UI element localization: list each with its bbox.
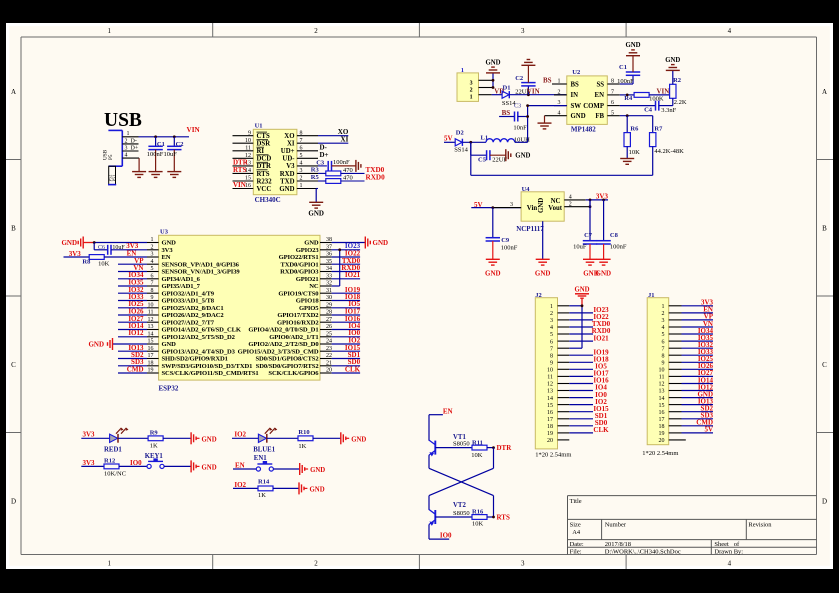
- svg-text:4: 4: [151, 259, 154, 265]
- capacitor C2: [164, 137, 184, 172]
- U3 left pins 1-19: [147, 237, 159, 374]
- svg-text:B: B: [822, 225, 827, 233]
- P1 designator: [461, 67, 464, 74]
- svg-text:4: 4: [558, 110, 561, 116]
- svg-text:P51: P51: [111, 175, 116, 182]
- svg-text:24: 24: [326, 339, 332, 345]
- svg-text:DTR: DTR: [257, 163, 271, 170]
- USB connector P5: [102, 130, 122, 184]
- svg-text:R2: R2: [673, 77, 681, 84]
- svg-text:2: 2: [569, 201, 572, 207]
- ground at U3 pin1: [61, 237, 83, 249]
- U2 pin 8 SS: [607, 79, 620, 85]
- svg-text:8: 8: [300, 130, 303, 136]
- svg-text:100nF: 100nF: [333, 159, 350, 166]
- U2 pin 6 COMP: [607, 100, 620, 106]
- svg-text:11: 11: [547, 375, 553, 381]
- junction at C2: [173, 135, 176, 138]
- junction SW pin: [526, 104, 529, 107]
- wire R2 to ground: [672, 70, 674, 84]
- wire L1 to SW: [515, 141, 528, 143]
- svg-text:10K/NC: 10K/NC: [104, 471, 126, 478]
- junction DTR: [492, 446, 495, 449]
- connector J2 body: [535, 298, 557, 449]
- svg-text:BLUE1: BLUE1: [253, 446, 276, 453]
- wire EN net at U3 pin3: [104, 256, 147, 258]
- svg-text:GPI34/AD1_6: GPI34/AD1_6: [162, 276, 201, 283]
- svg-text:4: 4: [728, 560, 732, 568]
- svg-text:6: 6: [611, 100, 614, 106]
- svg-text:GND: GND: [515, 153, 530, 160]
- svg-text:3: 3: [550, 318, 553, 324]
- svg-text:SCS/CLK/GPIO11/SD_CMD/RTS1: SCS/CLK/GPIO11/SD_CMD/RTS1: [162, 370, 259, 377]
- capacitor C2 22UF: [515, 65, 535, 95]
- diode D1 SS14: [492, 84, 517, 107]
- wire BS bootstrap net: [499, 116, 514, 118]
- junction FB R6: [626, 114, 629, 117]
- ground at R14: [299, 482, 325, 494]
- svg-text:4: 4: [550, 325, 553, 331]
- svg-text:C2: C2: [176, 141, 184, 148]
- wire RXD0 net: [318, 180, 365, 182]
- svg-text:100nF: 100nF: [610, 243, 627, 250]
- svg-text:D-: D-: [131, 138, 137, 144]
- svg-text:25: 25: [326, 331, 332, 337]
- inductor L1 10UH: [481, 134, 531, 143]
- svg-text:C5: C5: [478, 157, 487, 164]
- U1 part name CH340C: [255, 196, 281, 204]
- svg-text:470: 470: [343, 167, 353, 174]
- wire RED1 to R9: [118, 437, 148, 439]
- U2 part name MP1482: [571, 126, 596, 134]
- svg-text:XI: XI: [341, 136, 349, 144]
- svg-text:20: 20: [659, 438, 665, 444]
- net label BS at U2 pin1: [543, 77, 552, 85]
- svg-text:2: 2: [662, 311, 665, 317]
- svg-text:22: 22: [326, 353, 332, 359]
- svg-text:11: 11: [245, 146, 251, 152]
- net label IO23 at U3: [345, 242, 361, 250]
- svg-text:R232: R232: [257, 178, 273, 185]
- ground for USB pin 4: [132, 158, 146, 177]
- net label D+ at U1: [320, 151, 329, 159]
- capacitor C6 10uF: [94, 243, 125, 255]
- svg-text:GND: GND: [596, 269, 612, 277]
- capacitor C4 3.3nF: [644, 101, 677, 114]
- ground at R10: [341, 432, 367, 444]
- svg-text:9: 9: [151, 295, 154, 301]
- P1 pin 3: [470, 80, 493, 86]
- svg-text:16: 16: [547, 410, 553, 416]
- svg-text:VT2: VT2: [453, 502, 466, 509]
- svg-text:C1: C1: [619, 64, 627, 71]
- svg-text:4: 4: [125, 153, 128, 159]
- ground below C8: [596, 259, 612, 277]
- svg-text:2: 2: [300, 176, 303, 182]
- wire P1 ground net: [492, 73, 494, 88]
- svg-text:P5: P5: [108, 154, 114, 160]
- U4 pin 3: [493, 202, 521, 208]
- svg-text:GPIO27/AD2_7/T7: GPIO27/AD2_7/T7: [162, 319, 215, 326]
- svg-text:18: 18: [148, 360, 154, 366]
- svg-text:R5: R5: [311, 174, 320, 181]
- junction Vout: [589, 199, 592, 209]
- J2 pins 1-20: [547, 304, 569, 444]
- svg-text:RXD0: RXD0: [366, 173, 386, 181]
- svg-text:GND: GND: [571, 113, 586, 120]
- svg-text:10: 10: [148, 302, 154, 308]
- svg-text:30: 30: [326, 295, 332, 301]
- svg-text:VIN: VIN: [187, 126, 201, 134]
- svg-text:33: 33: [326, 273, 332, 279]
- USB section title: [104, 110, 142, 131]
- wire VT2 base to R16: [435, 516, 472, 518]
- svg-text:Number: Number: [605, 522, 627, 529]
- svg-text:2: 2: [151, 244, 154, 250]
- svg-text:18: 18: [547, 424, 553, 430]
- net label RTS at U1: [233, 166, 246, 174]
- svg-text:C: C: [822, 361, 827, 369]
- resistor R2 2.2K: [670, 77, 687, 106]
- svg-text:BS: BS: [502, 109, 511, 117]
- svg-text:GND: GND: [485, 60, 500, 67]
- svg-text:GND: GND: [351, 436, 366, 443]
- junction at EN: [626, 94, 629, 97]
- transistor VT1 S8050: [429, 434, 470, 456]
- wire R10 to ground: [313, 437, 341, 439]
- switch EN1: [233, 455, 273, 471]
- svg-text:1: 1: [558, 79, 561, 85]
- wire R2 to COMP node: [672, 98, 674, 105]
- U3 left net wires and labels: [118, 257, 147, 374]
- J2 designator: [535, 292, 542, 299]
- junction J2 pin1: [581, 304, 584, 307]
- svg-text:GND: GND: [202, 436, 217, 443]
- U2 pin 2 IN: [554, 90, 567, 96]
- svg-text:GND: GND: [538, 198, 545, 213]
- svg-text:U2: U2: [572, 69, 580, 76]
- svg-text:6: 6: [151, 273, 154, 279]
- svg-text:CTS: CTS: [257, 133, 270, 140]
- svg-text:1: 1: [470, 95, 473, 101]
- svg-text:12: 12: [547, 382, 553, 388]
- svg-text:U1: U1: [255, 123, 263, 130]
- ground at C3: [356, 160, 361, 172]
- svg-text:7: 7: [611, 90, 614, 96]
- wire EN to R4: [620, 94, 634, 96]
- wire U1 GND pin: [297, 189, 318, 203]
- wire DTR down: [493, 448, 495, 469]
- svg-text:3: 3: [300, 168, 303, 174]
- U2 designator: [572, 69, 580, 76]
- svg-text:2: 2: [470, 88, 473, 94]
- svg-text:21: 21: [326, 360, 332, 366]
- regulator U4 body (NCP1117): [521, 192, 564, 221]
- wire R9 to ground: [163, 437, 191, 439]
- svg-text:1*20 2.54mm: 1*20 2.54mm: [642, 450, 678, 457]
- svg-text:C4: C4: [644, 107, 653, 114]
- svg-text:34: 34: [326, 266, 332, 272]
- svg-text:20: 20: [326, 368, 332, 374]
- svg-text:C2: C2: [515, 75, 523, 82]
- U1 designator: [255, 123, 263, 130]
- svg-text:6: 6: [300, 146, 303, 152]
- svg-text:EN: EN: [443, 408, 453, 416]
- svg-text:GND: GND: [162, 341, 177, 348]
- svg-text:C9: C9: [501, 237, 510, 244]
- net label DTR at U1: [233, 158, 249, 166]
- svg-text:4: 4: [569, 195, 572, 201]
- junction RTS: [492, 516, 495, 519]
- resistor R14 1K: [233, 479, 273, 499]
- net label EN at VT1: [443, 408, 453, 416]
- svg-text:IO0: IO0: [130, 459, 142, 467]
- svg-text:Date:: Date:: [570, 541, 584, 548]
- svg-text:5: 5: [151, 266, 154, 272]
- ground at U1 pin 1: [308, 202, 324, 217]
- svg-text:EN: EN: [595, 92, 605, 99]
- USB pin 4: [122, 153, 139, 159]
- svg-text:15: 15: [659, 403, 665, 409]
- svg-text:4: 4: [662, 325, 665, 331]
- ground for C2: [167, 172, 181, 178]
- svg-text:GND: GND: [535, 269, 551, 277]
- svg-text:D: D: [822, 498, 827, 506]
- svg-text:11: 11: [659, 375, 665, 381]
- svg-text:R9: R9: [150, 429, 159, 436]
- svg-text:Title: Title: [570, 498, 582, 505]
- svg-text:19: 19: [148, 368, 154, 374]
- diode D2 SS14: [444, 130, 469, 154]
- svg-text:16: 16: [659, 410, 665, 416]
- svg-text:GND: GND: [61, 239, 77, 247]
- U1 right pins 8-1: [297, 130, 318, 189]
- ground below R6: [620, 147, 634, 165]
- svg-text:GND: GND: [665, 57, 680, 64]
- svg-text:RED1: RED1: [104, 447, 122, 454]
- svg-text:SD0/SD0/GPIO7/RTS2: SD0/SD0/GPIO7/RTS2: [256, 363, 320, 370]
- ground below C9: [485, 259, 501, 277]
- svg-text:IO21: IO21: [593, 334, 609, 342]
- resistor R12 10K/NC: [81, 457, 126, 477]
- svg-text:36: 36: [326, 252, 332, 258]
- svg-text:GND: GND: [162, 240, 177, 247]
- svg-text:GPIO16/RXD2: GPIO16/RXD2: [277, 319, 319, 326]
- wire XI net: [318, 142, 348, 144]
- svg-text:6: 6: [550, 339, 553, 345]
- svg-text:GPIO15/AD2_3/T3/SD_CMD: GPIO15/AD2_3/T3/SD_CMD: [238, 348, 319, 355]
- svg-text:GND: GND: [304, 240, 319, 247]
- wire VT1 base to R11: [435, 447, 472, 449]
- svg-text:C3: C3: [514, 103, 521, 109]
- wire R7 to 5V loop: [471, 142, 653, 175]
- svg-text:13: 13: [148, 324, 154, 330]
- svg-text:File:: File:: [570, 548, 582, 555]
- wire to VT2 collector: [428, 496, 430, 510]
- switch KEY1: [145, 453, 164, 468]
- J1 footprint label: [642, 450, 678, 457]
- svg-text:A: A: [11, 88, 16, 96]
- svg-text:3V3: 3V3: [596, 192, 609, 200]
- svg-text:KEY1: KEY1: [145, 453, 164, 460]
- wire U4 GND pin: [542, 221, 544, 259]
- svg-text:R10: R10: [298, 429, 309, 436]
- capacitor C1 100nF at SS: [617, 56, 640, 85]
- wire R11 to DTR: [487, 447, 494, 449]
- svg-text:13: 13: [659, 389, 665, 395]
- svg-text:12: 12: [659, 382, 665, 388]
- U2 pin names: [571, 81, 605, 120]
- J2 footprint label: [535, 451, 571, 458]
- net label VD: [494, 88, 504, 95]
- svg-text:26: 26: [326, 324, 332, 330]
- svg-text:GPIO2/AD2_2/T2/SD_D0: GPIO2/AD2_2/T2/SD_D0: [248, 341, 319, 348]
- svg-text:GND: GND: [310, 467, 325, 474]
- svg-text:GPIO25/AD2_8/DAC1: GPIO25/AD2_8/DAC1: [162, 305, 224, 312]
- svg-text:SCK/CLK/GPIO6: SCK/CLK/GPIO6: [268, 370, 319, 377]
- svg-text:MP1482: MP1482: [571, 126, 596, 134]
- svg-text:3V3: 3V3: [162, 247, 174, 254]
- svg-text:10K: 10K: [472, 520, 484, 527]
- svg-text:37: 37: [326, 244, 332, 250]
- wire EN to VT1 collector: [429, 415, 443, 441]
- op-amp U1 body (CH340C): [253, 129, 297, 194]
- wire BLUE1 to R10: [267, 437, 298, 439]
- svg-text:3: 3: [125, 145, 128, 151]
- svg-text:17: 17: [148, 353, 154, 359]
- svg-text:D+: D+: [320, 151, 329, 159]
- svg-text:16: 16: [245, 183, 251, 189]
- svg-text:28: 28: [326, 310, 332, 316]
- svg-text:J1: J1: [648, 292, 655, 299]
- net label 3V3 at RED1: [83, 431, 96, 439]
- svg-text:3: 3: [470, 81, 473, 87]
- resistor R6 10K: [624, 116, 640, 156]
- wire 3V3 net at U3 pin2: [111, 249, 147, 251]
- svg-text:5: 5: [662, 332, 665, 338]
- USB pin 3 D+: [122, 145, 139, 151]
- junction at C8: [602, 199, 605, 202]
- wire IO23 net at U3: [332, 250, 361, 286]
- svg-text:GND: GND: [310, 486, 325, 493]
- U3 right pins 38-20: [320, 237, 332, 374]
- U3 part name ESP32: [159, 385, 179, 393]
- resistor R7 44.2K-48K: [650, 116, 685, 156]
- svg-text:R14: R14: [258, 479, 270, 486]
- junction at C2 bulk: [527, 93, 530, 96]
- net label RXD0: [366, 173, 386, 181]
- svg-text:13: 13: [547, 389, 553, 395]
- svg-text:7: 7: [300, 138, 303, 144]
- wire XO net: [318, 135, 348, 137]
- svg-text:GND: GND: [308, 209, 324, 217]
- svg-text:5: 5: [611, 110, 614, 116]
- svg-text:D:\WORK\..\CH340.SchDoc: D:\WORK\..\CH340.SchDoc: [605, 548, 681, 555]
- svg-text:17: 17: [547, 417, 553, 423]
- svg-text:6: 6: [662, 339, 665, 345]
- svg-text:SWP/SD3/GPIO10/SD_D3/TXD1: SWP/SD3/GPIO10/SD_D3/TXD1: [162, 363, 253, 370]
- resistor R8 10K: [64, 255, 110, 268]
- svg-text:RTS: RTS: [257, 171, 270, 178]
- junction at C1: [154, 135, 157, 138]
- svg-text:8: 8: [151, 288, 154, 294]
- svg-text:GPIO22/RTS1: GPIO22/RTS1: [279, 254, 319, 261]
- U1 left pins 9-16: [233, 130, 254, 189]
- net label IO0 at KEY1: [130, 459, 142, 467]
- capacitor C1: [147, 137, 165, 172]
- svg-text:S8050: S8050: [453, 510, 470, 517]
- net label 3V3 at R12: [83, 459, 96, 467]
- wire FB net: [620, 115, 653, 117]
- svg-text:Size: Size: [570, 522, 581, 529]
- svg-text:UD-: UD-: [282, 156, 295, 163]
- svg-text:GND: GND: [279, 186, 294, 193]
- svg-text:11: 11: [148, 310, 154, 316]
- svg-text:10: 10: [547, 368, 553, 374]
- ground at EN1: [300, 463, 326, 475]
- wire V3 net: [318, 165, 327, 167]
- svg-text:C3: C3: [316, 159, 325, 166]
- svg-text:USB: USB: [104, 110, 142, 131]
- net label EN at U3 pin3: [127, 250, 137, 258]
- U3 pin names: [162, 240, 320, 378]
- wire 3V3 output net: [586, 200, 608, 207]
- svg-text:GPIO17/TXD2: GPIO17/TXD2: [277, 312, 319, 319]
- svg-text:D1: D1: [503, 84, 511, 91]
- capacitor C7 10uF: [573, 200, 597, 259]
- connector J1 body: [647, 298, 669, 445]
- svg-text:3: 3: [521, 560, 525, 568]
- svg-text:100nF: 100nF: [147, 151, 164, 158]
- wire U3 pin38 GND net: [332, 242, 366, 244]
- svg-text:3: 3: [662, 318, 665, 324]
- svg-text:12: 12: [148, 317, 154, 323]
- junction SW at C3: [526, 115, 529, 118]
- svg-text:DTR: DTR: [497, 444, 513, 452]
- U4 designator: [522, 186, 531, 193]
- svg-text:IO21: IO21: [345, 271, 361, 279]
- svg-text:B: B: [11, 225, 16, 233]
- ground at R9: [191, 432, 217, 444]
- svg-text:10uF: 10uF: [573, 243, 587, 250]
- svg-text:Revision: Revision: [748, 522, 772, 529]
- svg-text:7: 7: [550, 346, 553, 352]
- svg-text:EN1: EN1: [254, 455, 267, 462]
- svg-text:NC: NC: [309, 283, 319, 290]
- net label 5V at D2: [444, 135, 453, 143]
- svg-text:L1: L1: [481, 134, 489, 141]
- svg-text:BS: BS: [571, 81, 580, 88]
- svg-text:1: 1: [127, 131, 130, 137]
- svg-text:5: 5: [550, 332, 553, 338]
- svg-text:CMD: CMD: [127, 366, 144, 374]
- resistor R4 100K: [624, 93, 664, 103]
- svg-text:C: C: [11, 361, 16, 369]
- svg-text:Drawn By:: Drawn By:: [714, 548, 743, 555]
- svg-text:7: 7: [662, 346, 665, 352]
- svg-text:1: 1: [108, 27, 112, 35]
- svg-text:GPIO13/AD2_4/T4/SD_D3: GPIO13/AD2_4/T4/SD_D3: [162, 348, 236, 355]
- svg-text:9: 9: [248, 130, 251, 136]
- svg-text:1K: 1K: [258, 492, 266, 499]
- wire EN1 to ground: [273, 468, 299, 470]
- svg-text:3V3: 3V3: [83, 431, 96, 439]
- svg-text:44.2K-48K: 44.2K-48K: [654, 148, 684, 155]
- svg-text:GPI35/AD1_7: GPI35/AD1_7: [162, 283, 201, 290]
- U3 right net wires and labels: [332, 250, 361, 374]
- svg-text:10K: 10K: [98, 261, 110, 268]
- svg-text:A: A: [822, 88, 827, 96]
